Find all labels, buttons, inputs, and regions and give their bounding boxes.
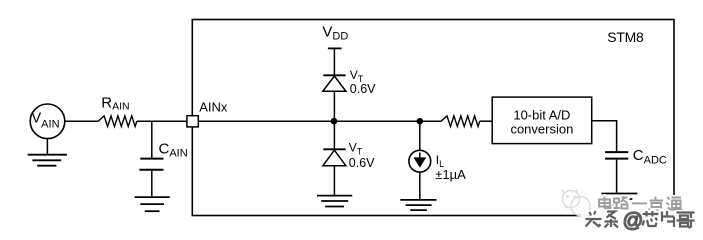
VDD terminal bar <box>328 47 342 49</box>
svg-text:RAIN: RAIN <box>101 95 129 113</box>
diode D1 (clamp to VDD) <box>323 75 346 121</box>
svg-text:0.6V: 0.6V <box>350 82 376 96</box>
ground (under IL) <box>400 200 436 210</box>
watermark line1 gray <box>599 197 682 212</box>
pin AINx (square on box edge) <box>187 116 198 127</box>
capacitor CADC <box>605 152 628 193</box>
wire VAIN to RAIN <box>65 120 99 122</box>
wire RAIN to AINx pin <box>137 120 187 122</box>
node junction at current source <box>417 118 424 125</box>
svg-text:VT: VT <box>349 141 363 157</box>
watermark line2 emboss <box>587 212 696 229</box>
resistor (sampling switch) <box>441 116 480 127</box>
svg-text:10-bit A/D: 10-bit A/D <box>513 107 570 122</box>
svg-text:@: @ <box>623 209 644 232</box>
ground (under D2) <box>317 196 352 207</box>
10-bit A/D conversion box <box>492 97 592 144</box>
watermark line1 emboss <box>600 198 683 213</box>
voltage source VAIN <box>30 104 65 139</box>
capacitor CAIN <box>139 121 163 196</box>
svg-text:CADC: CADC <box>633 147 667 166</box>
wire resistor to ADC box <box>480 120 493 122</box>
ground (under CAIN) <box>135 197 170 211</box>
svg-text:AINx: AINx <box>199 99 228 114</box>
svg-text:0.6V: 0.6V <box>349 156 375 170</box>
main wire AINx to right resistor <box>198 120 441 122</box>
ground (under CADC) <box>602 194 638 205</box>
current source IL <box>409 121 431 200</box>
svg-text:conversion: conversion <box>510 122 573 137</box>
svg-text:VAIN: VAIN <box>32 111 60 131</box>
watermark text line1: 电路一点通 (white halo) <box>599 197 682 212</box>
watermark icon <box>562 189 590 216</box>
diode D2 (clamp to ground) <box>323 121 346 195</box>
svg-text:VDD: VDD <box>322 23 348 42</box>
wire ADC box to CADC <box>592 121 617 152</box>
watermark text line2: 头条@芯片哥 (white halo) <box>586 211 695 228</box>
resistor RAIN <box>98 116 137 127</box>
ground (under VAIN) <box>28 139 67 166</box>
svg-text:±1µA: ±1µA <box>435 167 466 182</box>
svg-text:CAIN: CAIN <box>159 140 188 159</box>
watermark line2 gray <box>586 211 695 228</box>
STM8 box <box>192 20 674 216</box>
node junction at diode stack <box>331 118 338 125</box>
watermark line2 background wipe <box>581 211 703 232</box>
svg-text:STM8: STM8 <box>607 29 644 45</box>
